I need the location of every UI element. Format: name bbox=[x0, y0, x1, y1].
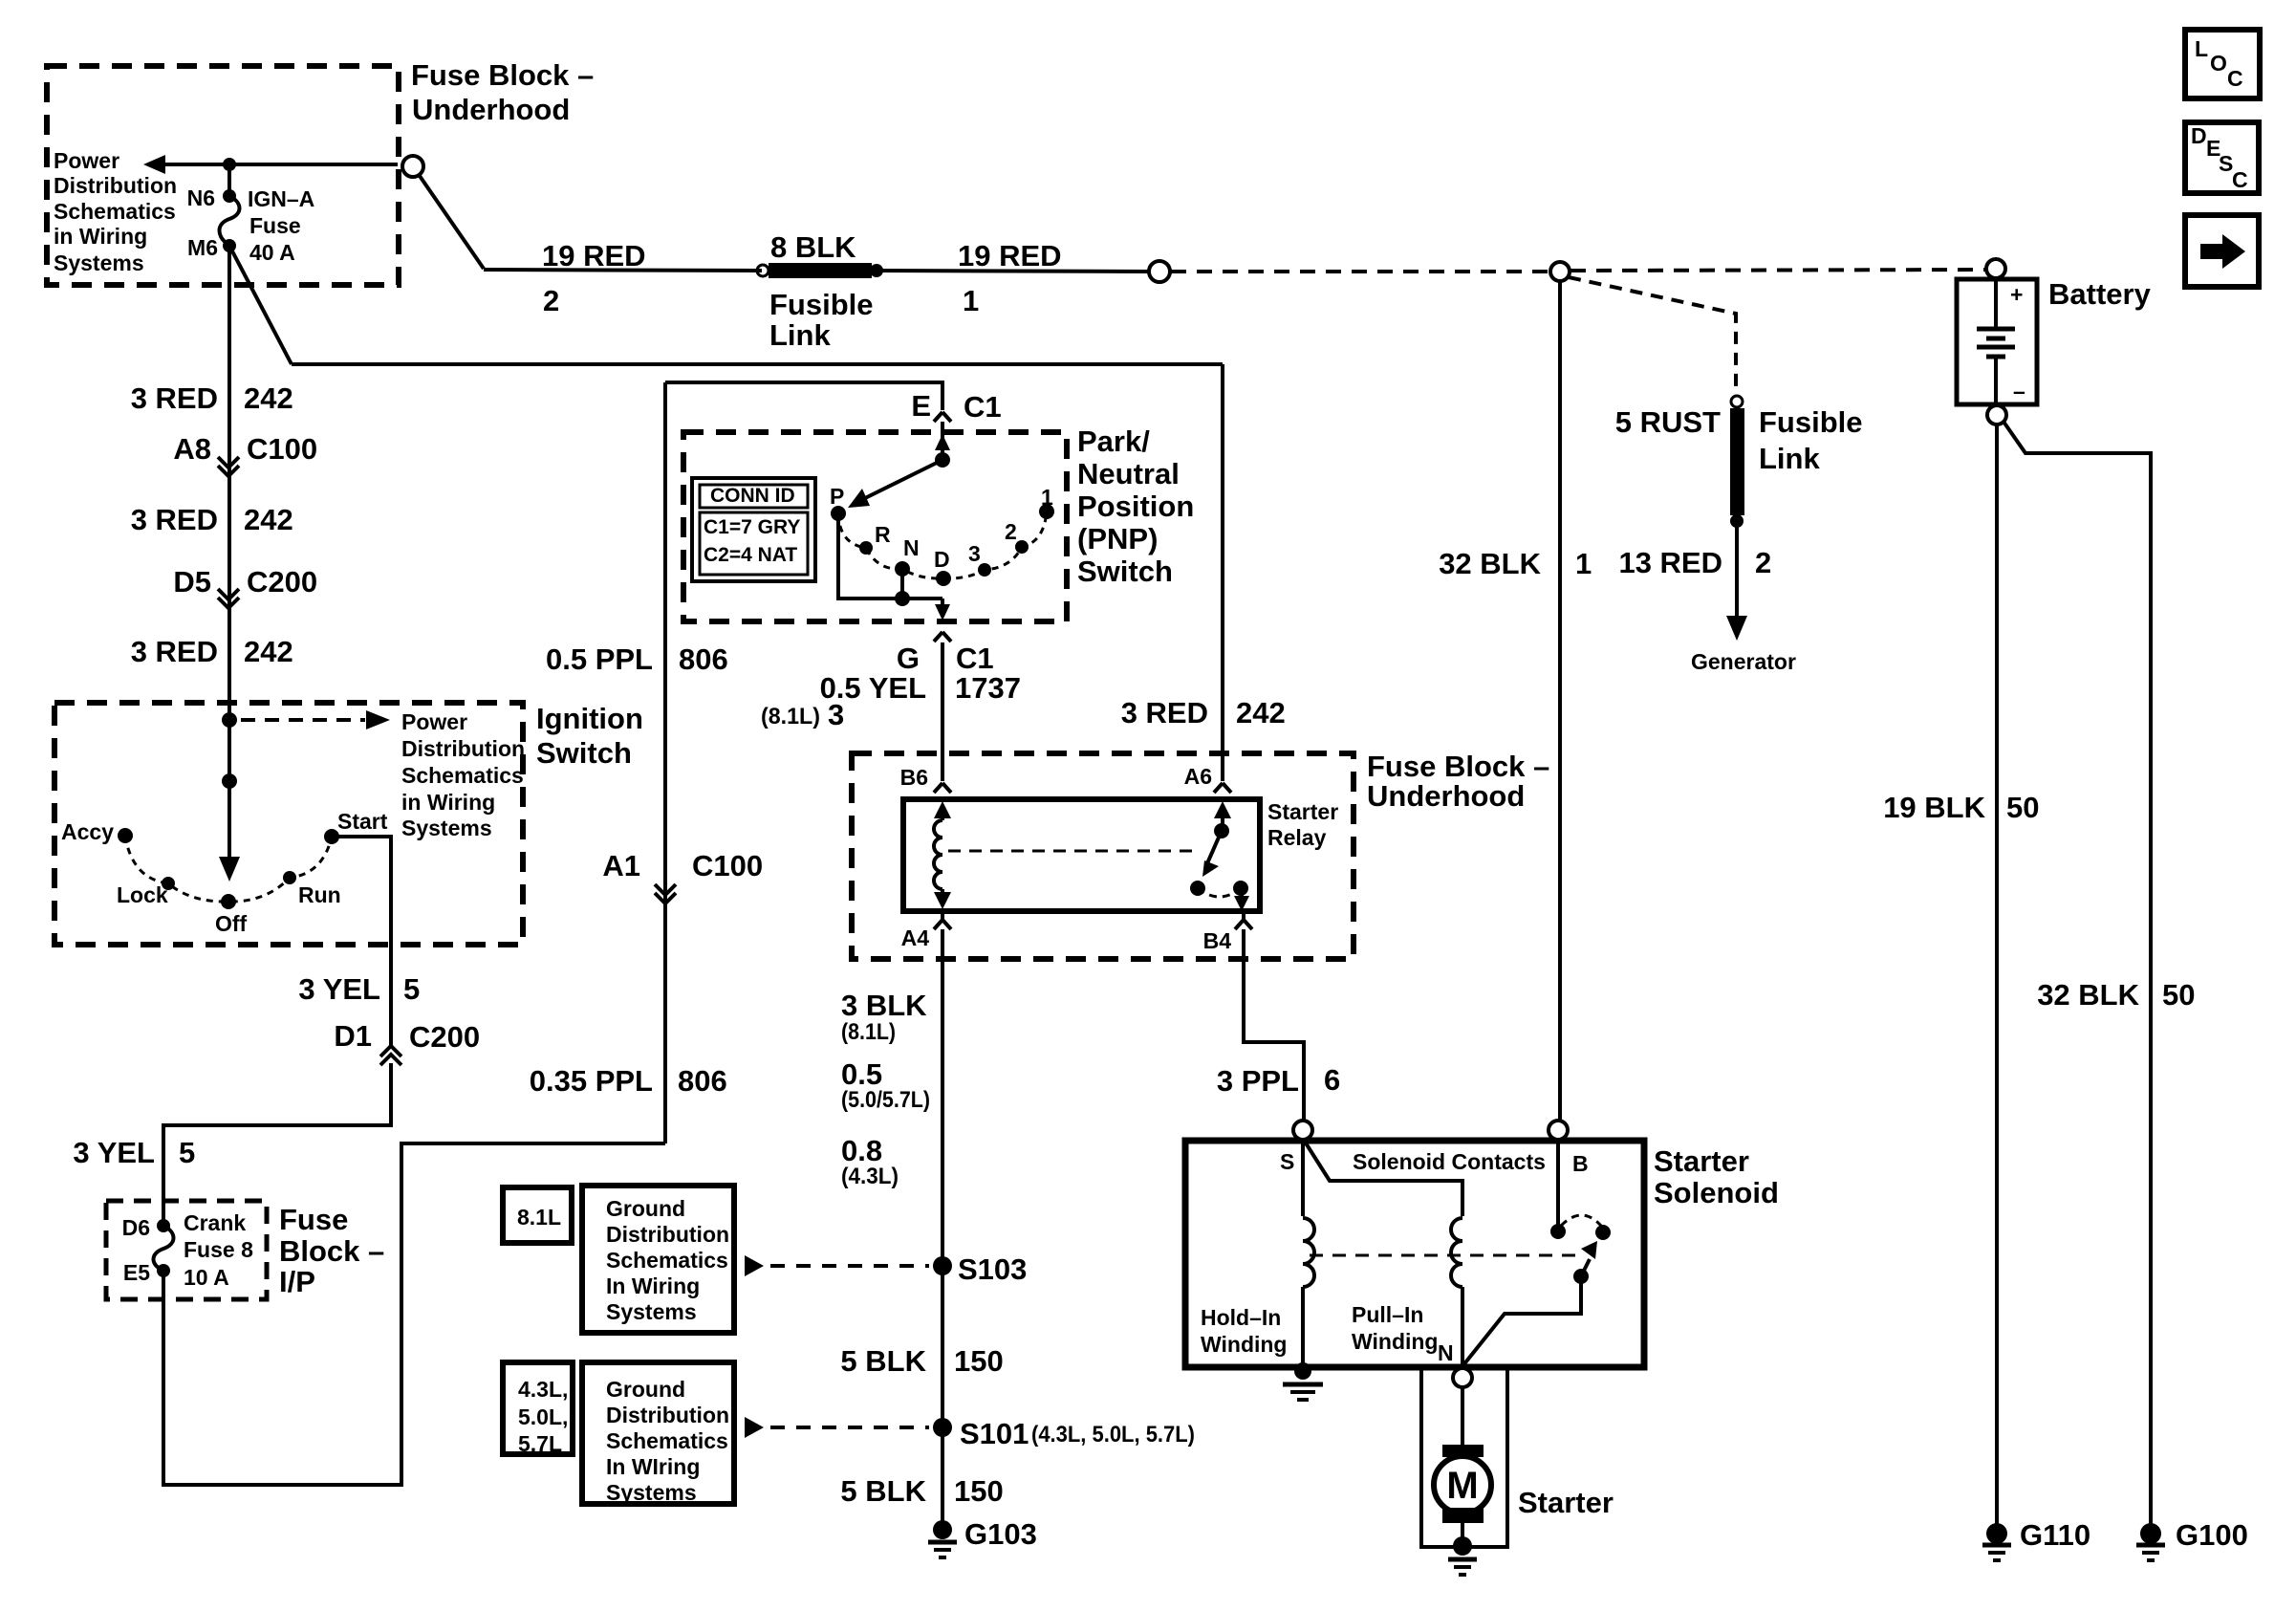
wire: dashed to junction bbox=[1171, 270, 1549, 273]
wire: E into PNP box bbox=[941, 422, 944, 460]
svg-text:242: 242 bbox=[1236, 696, 1286, 729]
node: R contact bbox=[859, 541, 873, 555]
svg-text:3 RED: 3 RED bbox=[1121, 696, 1208, 729]
node: S103 splice bbox=[933, 1256, 952, 1275]
svg-text:Fusible: Fusible bbox=[769, 288, 874, 321]
svg-text:Ground: Ground bbox=[606, 1377, 685, 1402]
wire: S to pull-in winding bbox=[1305, 1142, 1462, 1216]
svg-text:+: + bbox=[2010, 282, 2023, 307]
svg-text:19 RED: 19 RED bbox=[542, 239, 646, 272]
svg-text:50: 50 bbox=[2162, 978, 2195, 1012]
svg-text:(4.3L): (4.3L) bbox=[841, 1164, 899, 1189]
node: relay switch pivot bbox=[1214, 823, 1229, 838]
relay dashed actuator line bbox=[948, 850, 1195, 853]
svg-text:L: L bbox=[2195, 36, 2208, 61]
svg-text:Schematics: Schematics bbox=[54, 199, 176, 224]
svg-text:C2=4 NAT: C2=4 NAT bbox=[704, 544, 797, 566]
svg-text:Systems: Systems bbox=[54, 250, 144, 275]
wire: G C1 down to relay B6 bbox=[941, 642, 944, 781]
svg-text:3 PPL: 3 PPL bbox=[1217, 1064, 1299, 1098]
wire: 3 RED 242 down to relay A6 bbox=[1221, 364, 1224, 781]
svg-text:Park/: Park/ bbox=[1077, 425, 1150, 458]
svg-text:D1: D1 bbox=[334, 1019, 372, 1053]
PNP wiper arrow to P bbox=[863, 460, 942, 499]
svg-text:A6: A6 bbox=[1184, 764, 1212, 789]
svg-text:(5.0/5.7L): (5.0/5.7L) bbox=[841, 1087, 930, 1113]
svg-text:0.35 PPL: 0.35 PPL bbox=[530, 1064, 653, 1098]
svg-text:Schematics: Schematics bbox=[606, 1248, 728, 1273]
PNP switch dashed box bbox=[683, 432, 1067, 621]
node: N contact bbox=[895, 561, 910, 577]
svg-text:1: 1 bbox=[1575, 547, 1592, 580]
svg-text:806: 806 bbox=[679, 642, 728, 676]
fusible link 5 RUST element bbox=[1731, 396, 1743, 407]
ground G100 bbox=[2140, 1523, 2161, 1544]
svg-text:6: 6 bbox=[1324, 1063, 1340, 1097]
svg-text:8 BLK: 8 BLK bbox=[770, 230, 856, 264]
svg-text:Underhood: Underhood bbox=[1367, 779, 1525, 813]
svg-text:50: 50 bbox=[2006, 791, 2039, 824]
8.1L tag box bbox=[503, 1187, 572, 1243]
svg-text:B4: B4 bbox=[1203, 928, 1232, 953]
svg-text:N6: N6 bbox=[187, 185, 215, 210]
svg-text:19 RED: 19 RED bbox=[958, 239, 1062, 272]
svg-text:A4: A4 bbox=[901, 925, 930, 950]
wire: 0.5 PPL vertical (wire B) bbox=[663, 382, 667, 1143]
svg-text:G100: G100 bbox=[2176, 1518, 2248, 1552]
svg-text:M: M bbox=[1446, 1465, 1478, 1507]
starter solenoid box bbox=[1185, 1141, 1644, 1367]
node: B terminal circle bbox=[1549, 1121, 1568, 1140]
svg-text:2: 2 bbox=[1755, 546, 1771, 579]
node: PNP wiper pivot dot bbox=[935, 452, 950, 468]
starter bracket bbox=[1421, 1368, 1507, 1547]
connector E C1 fork bbox=[934, 412, 951, 422]
svg-text:I/P: I/P bbox=[279, 1265, 315, 1298]
svg-text:Block –: Block – bbox=[279, 1234, 384, 1268]
svg-text:1: 1 bbox=[963, 284, 979, 317]
svg-text:Schematics: Schematics bbox=[606, 1428, 728, 1453]
svg-text:Systems: Systems bbox=[606, 1299, 697, 1324]
node: arm pivot dot bbox=[1573, 1269, 1589, 1284]
wire: diagonal from circle to 19 RED run bbox=[420, 176, 484, 269]
svg-text:Starter: Starter bbox=[1267, 799, 1338, 824]
wire: dashed junction to battery bbox=[1570, 270, 1985, 271]
fuse IGN-A element (squiggle) bbox=[223, 189, 236, 203]
svg-text:0.5 PPL: 0.5 PPL bbox=[546, 642, 653, 676]
wire: B contact drop bbox=[1556, 1140, 1560, 1225]
svg-text:40 A: 40 A bbox=[249, 240, 295, 265]
wire: A4 down center column bbox=[941, 929, 944, 1522]
svg-text:Link: Link bbox=[769, 318, 831, 352]
node: B contact dot bbox=[1550, 1224, 1566, 1239]
svg-text:Solenoid Contacts: Solenoid Contacts bbox=[1353, 1149, 1546, 1174]
battery bbox=[1986, 259, 2005, 278]
node: motor ground dot bbox=[1453, 1536, 1472, 1556]
svg-text:G110: G110 bbox=[2020, 1518, 2090, 1552]
solenoid switch arm from N bbox=[1462, 1283, 1581, 1366]
solenoid dashed actuator line bbox=[1310, 1254, 1575, 1257]
svg-text:242: 242 bbox=[244, 381, 293, 415]
hold-in winding bbox=[1301, 1141, 1305, 1216]
ignition switch dashed box bbox=[54, 703, 523, 945]
svg-text:Battery: Battery bbox=[2048, 277, 2152, 311]
svg-text:Relay: Relay bbox=[1267, 825, 1327, 850]
pull-in winding bbox=[1451, 1218, 1462, 1287]
wire: 19 RED segment 2 bbox=[484, 270, 762, 271]
svg-text:2: 2 bbox=[543, 284, 559, 317]
node: junction circle bbox=[1550, 262, 1570, 281]
relay coil arrows and winding bbox=[934, 801, 951, 818]
node: D contact bbox=[936, 571, 951, 586]
fuse block underhood (top-left) dashed box bbox=[47, 66, 399, 285]
svg-text:3: 3 bbox=[828, 698, 844, 731]
svg-text:IGN–A: IGN–A bbox=[248, 186, 314, 211]
svg-text:Ignition: Ignition bbox=[536, 702, 643, 735]
svg-text:5.7L: 5.7L bbox=[518, 1431, 562, 1456]
svg-text:–: – bbox=[2013, 379, 2025, 403]
svg-text:4.3L,: 4.3L, bbox=[518, 1377, 568, 1402]
svg-text:C100: C100 bbox=[692, 849, 763, 882]
svg-text:A1: A1 bbox=[602, 849, 640, 882]
wire: output down with arrow bbox=[941, 599, 944, 610]
ground G103 bbox=[933, 1520, 952, 1539]
wire: D1 to crank fuse bbox=[163, 1063, 391, 1226]
node: S terminal circle bbox=[1293, 1121, 1312, 1140]
svg-text:Switch: Switch bbox=[536, 736, 632, 770]
svg-text:Distribution: Distribution bbox=[54, 173, 177, 198]
solenoid contact dashed arc bbox=[1561, 1215, 1601, 1226]
svg-text:B6: B6 bbox=[900, 765, 928, 790]
svg-text:3 RED: 3 RED bbox=[131, 503, 218, 536]
svg-text:Winding: Winding bbox=[1201, 1332, 1287, 1357]
svg-text:Neutral: Neutral bbox=[1077, 457, 1180, 490]
svg-text:N: N bbox=[1438, 1340, 1454, 1365]
node: junction dot on bar bbox=[895, 591, 910, 606]
svg-text:E5: E5 bbox=[123, 1260, 150, 1285]
svg-text:C200: C200 bbox=[409, 1020, 480, 1054]
svg-text:P: P bbox=[830, 484, 844, 509]
svg-text:E: E bbox=[911, 389, 931, 423]
svg-text:Fuse Block –: Fuse Block – bbox=[411, 58, 594, 92]
PNP contact arc dashed bbox=[838, 512, 1047, 578]
ground distribution box 1 bbox=[582, 1186, 734, 1333]
connector B4 fork bbox=[1235, 911, 1252, 929]
wire: arrow line to Power Distribution bbox=[148, 163, 398, 166]
svg-text:Distribution: Distribution bbox=[401, 736, 525, 761]
node: 1 contact bbox=[1039, 504, 1054, 519]
svg-text:Start: Start bbox=[337, 809, 388, 834]
svg-text:5 BLK: 5 BLK bbox=[840, 1474, 926, 1508]
node: Run contact bbox=[283, 871, 296, 884]
svg-text:0.5: 0.5 bbox=[841, 1057, 882, 1091]
wire: horizontal to PNP E bbox=[665, 382, 942, 410]
wire: M6 branch diagonal bbox=[229, 246, 292, 364]
svg-text:Underhood: Underhood bbox=[412, 93, 570, 126]
wire: P to output bar bbox=[838, 513, 942, 599]
svg-text:In Wiring: In Wiring bbox=[606, 1274, 700, 1298]
svg-text:32 BLK: 32 BLK bbox=[2037, 978, 2139, 1012]
relay contact dashed arc bbox=[1198, 888, 1241, 897]
node: relay contact right bbox=[1233, 881, 1248, 896]
svg-text:Position: Position bbox=[1077, 490, 1194, 523]
svg-text:(PNP): (PNP) bbox=[1077, 522, 1158, 555]
wire: dashed branch to 5 RUST fusible link bbox=[1569, 277, 1736, 396]
svg-text:A8: A8 bbox=[173, 432, 211, 466]
arm arrow toward contact bbox=[1581, 1259, 1590, 1276]
svg-text:5 BLK: 5 BLK bbox=[840, 1344, 926, 1378]
svg-text:Schematics: Schematics bbox=[401, 763, 524, 788]
svg-text:Starter: Starter bbox=[1654, 1144, 1749, 1178]
svg-text:Lock: Lock bbox=[117, 882, 168, 907]
4.3L tag box bbox=[503, 1362, 573, 1454]
svg-text:19 BLK: 19 BLK bbox=[1883, 791, 1985, 824]
svg-text:C1=7 GRY: C1=7 GRY bbox=[704, 516, 800, 538]
svg-text:32 BLK: 32 BLK bbox=[1439, 547, 1541, 580]
svg-text:C: C bbox=[2227, 66, 2243, 91]
svg-text:8.1L: 8.1L bbox=[517, 1205, 561, 1230]
svg-text:M6: M6 bbox=[187, 235, 218, 260]
svg-text:Accy: Accy bbox=[61, 819, 114, 844]
wire: M6 down to left column bbox=[227, 246, 231, 720]
svg-text:D5: D5 bbox=[173, 565, 211, 599]
svg-text:Ground: Ground bbox=[606, 1196, 685, 1221]
connector D1 C200 chevrons (up) bbox=[380, 1046, 401, 1056]
svg-text:CONN ID: CONN ID bbox=[710, 485, 795, 507]
svg-text:In WIring: In WIring bbox=[606, 1454, 700, 1479]
svg-text:Hold–In: Hold–In bbox=[1201, 1305, 1281, 1330]
ground at hold-in winding bbox=[1294, 1362, 1311, 1380]
svg-text:0.8: 0.8 bbox=[841, 1134, 882, 1167]
svg-text:Distribution: Distribution bbox=[606, 1222, 729, 1247]
LOC box bbox=[2185, 30, 2260, 98]
svg-text:Systems: Systems bbox=[401, 816, 492, 840]
svg-text:Distribution: Distribution bbox=[606, 1403, 729, 1427]
wire: 3 RED 242 horizontal run bbox=[292, 362, 1223, 366]
node: 3 contact bbox=[978, 563, 991, 577]
svg-text:Systems: Systems bbox=[606, 1480, 697, 1505]
svg-text:3 BLK: 3 BLK bbox=[841, 989, 927, 1022]
connector G C1 fork bbox=[934, 632, 951, 642]
svg-text:G103: G103 bbox=[964, 1517, 1037, 1551]
node: P contact bbox=[831, 506, 846, 521]
node: junction dot 2 bbox=[222, 773, 237, 789]
svg-text:D: D bbox=[934, 547, 950, 572]
connector D5 C200 chevrons bbox=[218, 589, 239, 599]
node: N terminal circle bbox=[1453, 1368, 1472, 1387]
svg-text:(8.1L): (8.1L) bbox=[761, 704, 820, 729]
wire: 19 BLK 50 battery negative down to G110 bbox=[1995, 425, 1999, 1524]
svg-text:3 YEL: 3 YEL bbox=[298, 972, 380, 1006]
connector circle at fuse block output bbox=[402, 156, 423, 177]
svg-text:D: D bbox=[2191, 123, 2207, 148]
svg-text:C1: C1 bbox=[956, 642, 994, 675]
node: junction dot on arrow wire bbox=[223, 158, 236, 171]
node: Start contact bbox=[324, 829, 339, 844]
fuse block underhood (relay) dashed box bbox=[852, 753, 1354, 959]
svg-text:S101: S101 bbox=[960, 1417, 1029, 1450]
svg-text:13 RED: 13 RED bbox=[1618, 546, 1722, 579]
svg-text:Fuse: Fuse bbox=[279, 1203, 348, 1236]
svg-text:3 YEL: 3 YEL bbox=[73, 1136, 155, 1169]
svg-text:Winding: Winding bbox=[1352, 1329, 1438, 1354]
node: relay contact left bbox=[1190, 881, 1205, 896]
node: junction dot bbox=[222, 712, 237, 728]
wire: A6 into relay bbox=[1214, 801, 1231, 818]
wire: B4 to solenoid S bbox=[1244, 929, 1304, 1121]
svg-text:10 A: 10 A bbox=[184, 1265, 229, 1290]
connector A8 C100 chevrons bbox=[218, 457, 239, 468]
svg-text:(4.3L, 5.0L, 5.7L): (4.3L, 5.0L, 5.7L) bbox=[1031, 1422, 1195, 1448]
ground distribution box 2 bbox=[582, 1362, 734, 1504]
svg-text:S103: S103 bbox=[958, 1252, 1027, 1286]
wire: N stub bbox=[900, 569, 904, 599]
fuse Crank Fuse 8 element bbox=[157, 1219, 170, 1232]
svg-text:806: 806 bbox=[678, 1064, 727, 1098]
connector circle 1 bbox=[1149, 261, 1170, 282]
ground G110 bbox=[1986, 1523, 2007, 1544]
wire: N to motor bbox=[1461, 1387, 1464, 1446]
svg-text:5 RUST: 5 RUST bbox=[1615, 405, 1721, 439]
svg-text:in Wiring: in Wiring bbox=[401, 790, 495, 815]
svg-text:C100: C100 bbox=[247, 432, 317, 466]
svg-text:Crank: Crank bbox=[184, 1210, 246, 1235]
svg-text:C200: C200 bbox=[247, 565, 317, 599]
connector A6 fork bbox=[1214, 783, 1231, 793]
svg-text:B: B bbox=[1572, 1151, 1589, 1176]
relay switch arm arrow bbox=[1207, 831, 1222, 863]
svg-text:Fuse 8: Fuse 8 bbox=[184, 1237, 253, 1262]
arrow box bbox=[2185, 215, 2259, 287]
wire: to generator arrow bbox=[1735, 521, 1739, 621]
svg-text:150: 150 bbox=[954, 1344, 1004, 1378]
fusible link 8 BLK element bbox=[757, 265, 769, 276]
svg-text:150: 150 bbox=[954, 1474, 1004, 1508]
wire: E5 loop to ignition feed bbox=[163, 1143, 665, 1485]
svg-text:Fuse Block –: Fuse Block – bbox=[1367, 750, 1549, 783]
svg-text:242: 242 bbox=[244, 635, 293, 668]
svg-text:1: 1 bbox=[1041, 485, 1053, 510]
node: right contact dot bbox=[1595, 1225, 1611, 1240]
svg-text:O: O bbox=[2210, 51, 2227, 76]
connector B6 fork bbox=[934, 783, 951, 793]
CONN ID table bbox=[692, 478, 815, 581]
svg-text:Fusible: Fusible bbox=[1759, 405, 1863, 439]
svg-text:5: 5 bbox=[179, 1136, 195, 1169]
svg-text:C: C bbox=[2232, 167, 2248, 192]
svg-text:G: G bbox=[897, 642, 920, 675]
node: 2 contact bbox=[1015, 540, 1029, 554]
svg-text:2: 2 bbox=[1005, 519, 1017, 544]
svg-text:242: 242 bbox=[244, 503, 293, 536]
svg-text:Off: Off bbox=[215, 911, 248, 936]
svg-text:S: S bbox=[1280, 1149, 1294, 1174]
svg-text:Starter: Starter bbox=[1518, 1486, 1614, 1519]
wire: dashed to S103 with arrow bbox=[745, 1255, 764, 1276]
arrowhead left bbox=[143, 155, 165, 174]
svg-text:(8.1L): (8.1L) bbox=[841, 1019, 896, 1045]
starter relay box bbox=[903, 799, 1260, 911]
wire: Start output bbox=[332, 837, 391, 1045]
svg-text:Power: Power bbox=[54, 148, 119, 173]
starter motor bbox=[1442, 1445, 1484, 1457]
wire: stub to fuse bbox=[227, 164, 231, 196]
wire: 32 BLK 50 branch to G100 bbox=[2004, 422, 2151, 1524]
wire: dashed arrow to power distribution bbox=[241, 718, 365, 722]
svg-text:Power: Power bbox=[401, 709, 467, 734]
svg-text:Run: Run bbox=[298, 882, 341, 907]
wire: 32 BLK 1 from junction down to solenoid B bbox=[1558, 281, 1562, 1121]
node: S101 splice bbox=[933, 1418, 952, 1437]
wire: relay output arrow down bbox=[1240, 888, 1244, 899]
DESC box bbox=[2185, 122, 2259, 193]
node: Off contact bbox=[221, 894, 236, 909]
svg-text:3 RED: 3 RED bbox=[131, 635, 218, 668]
node: Lock contact bbox=[162, 877, 175, 890]
svg-text:5.0L,: 5.0L, bbox=[518, 1404, 568, 1429]
svg-text:D6: D6 bbox=[122, 1215, 150, 1240]
svg-text:3 RED: 3 RED bbox=[131, 381, 218, 415]
ignition switch contacts arc bbox=[125, 836, 332, 902]
wire: wiper arrow down to Off bbox=[227, 720, 231, 860]
crank fuse dashed box bbox=[106, 1201, 267, 1299]
svg-text:Pull–In: Pull–In bbox=[1352, 1302, 1423, 1327]
svg-text:Generator: Generator bbox=[1691, 649, 1796, 674]
wire: 19 RED segment 1 bbox=[877, 271, 1149, 272]
svg-text:in Wiring: in Wiring bbox=[54, 224, 147, 249]
connector A1 C100 chevrons bbox=[655, 884, 676, 895]
svg-text:Solenoid: Solenoid bbox=[1654, 1176, 1779, 1209]
svg-text:C1: C1 bbox=[964, 390, 1002, 424]
svg-text:Fuse: Fuse bbox=[249, 213, 301, 238]
svg-text:N: N bbox=[903, 535, 920, 560]
svg-text:R: R bbox=[875, 522, 891, 547]
svg-text:5: 5 bbox=[403, 972, 420, 1006]
wire: dashed to S101 with arrow bbox=[745, 1417, 764, 1438]
node: Accy contact bbox=[118, 828, 133, 843]
svg-text:Switch: Switch bbox=[1077, 555, 1173, 588]
svg-text:Link: Link bbox=[1759, 442, 1820, 475]
connector A4 fork bbox=[934, 911, 951, 929]
svg-text:1737: 1737 bbox=[955, 671, 1021, 705]
svg-text:3: 3 bbox=[968, 541, 981, 566]
